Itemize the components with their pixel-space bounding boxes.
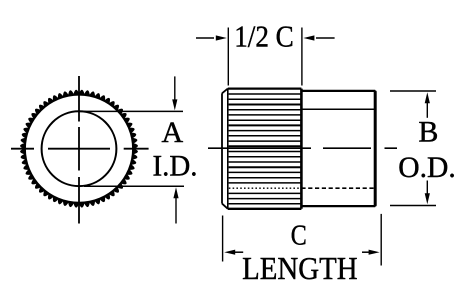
svg-text:B: B [418, 116, 438, 149]
B bottom extension line [390, 205, 436, 207]
front view: vertical centerline [78, 76, 80, 224]
side view: knurl bottom edge [228, 208, 302, 210]
O.D. down arrow [426, 181, 428, 197]
side view: horizontal centerline [208, 147, 397, 149]
1/2 C right extension line [301, 28, 303, 86]
side view: end face left edge [221, 93, 223, 203]
C right extension line [380, 214, 382, 266]
leader line bottom of inner circle [84, 185, 184, 187]
svg-text:C: C [291, 221, 307, 252]
svg-text:A: A [161, 116, 183, 149]
side view: bottom-left chamfer [222, 204, 228, 209]
side view: knurl top edge [228, 87, 302, 89]
front view: inner circle I.D. [42, 111, 117, 186]
B up arrow [426, 101, 428, 118]
C left extension line [222, 216, 224, 262]
side view: knurl straight-knurling lines [229, 93, 301, 95]
side view: knurl/body boundary vertical [300, 89, 303, 209]
C right arrow [369, 250, 380, 255]
side view: hidden dashed line [229, 187, 302, 189]
leader line top of inner circle [79, 110, 183, 112]
side view: body bottom edge [301, 205, 375, 207]
svg-text:O.D.: O.D. [398, 151, 456, 184]
front view: serrated knurled ring [20, 90, 138, 208]
svg-text:I.D.: I.D. [153, 150, 198, 183]
front view: horizontal centerline [11, 148, 149, 150]
A dimension up arrow [175, 196, 177, 224]
1/2 C right arrow [316, 37, 335, 39]
C left arrow [224, 250, 235, 255]
side view: chamfer vertical line [227, 89, 229, 209]
side view: body top edge [301, 90, 375, 92]
svg-text:1/2 C: 1/2 C [234, 19, 294, 54]
B top extension line [390, 90, 436, 92]
side view: body right edge [374, 92, 377, 205]
A dimension down arrow [174, 76, 176, 102]
svg-text:LENGTH: LENGTH [242, 250, 358, 286]
1/2 C left arrow [196, 37, 214, 39]
1/2 C left extension line [227, 28, 229, 86]
side view: internal bore line [301, 108, 374, 110]
side view: top-left chamfer [222, 89, 228, 94]
